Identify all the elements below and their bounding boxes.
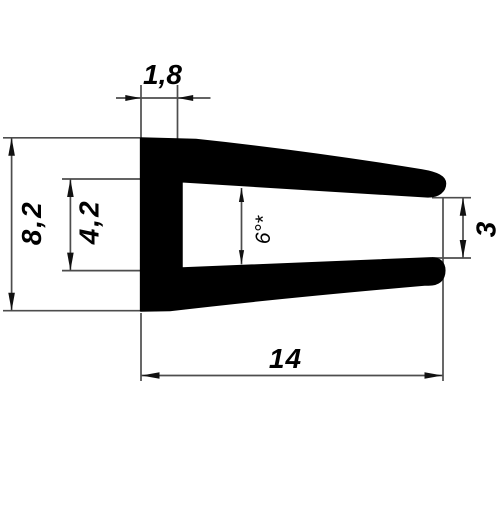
svg-text:3: 3: [471, 221, 500, 237]
svg-text:6°*: 6°*: [252, 215, 275, 244]
svg-text:14: 14: [269, 343, 302, 374]
svg-text:4,2: 4,2: [73, 199, 104, 245]
svg-text:1,8: 1,8: [143, 59, 182, 90]
svg-text:8,2: 8,2: [16, 200, 47, 245]
